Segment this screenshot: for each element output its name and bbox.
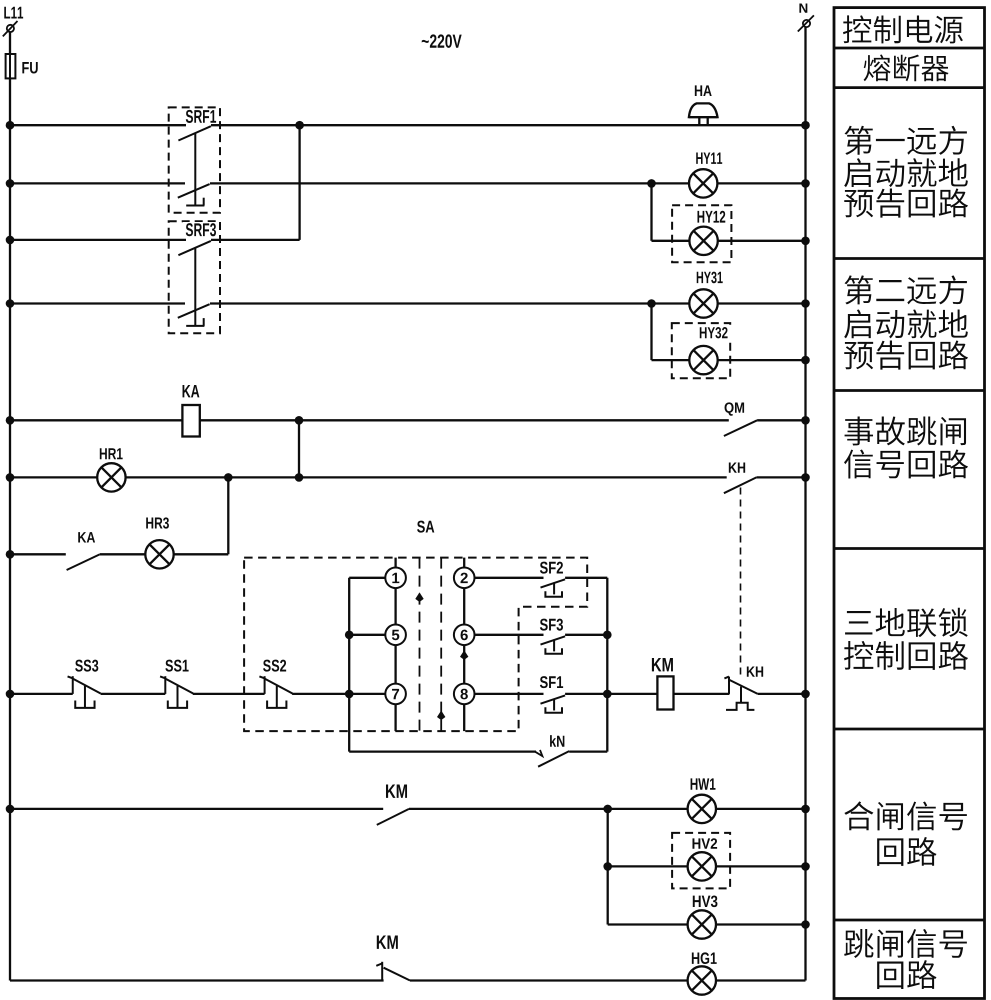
button SS3 (NC) bbox=[75, 660, 83, 672]
wire HV3 branch bbox=[608, 923, 688, 925]
lamp HY31 bbox=[697, 272, 703, 283]
wire row1 left bbox=[10, 124, 186, 126]
lamp HV3 bbox=[693, 896, 701, 907]
lamp HG1 bbox=[692, 953, 699, 964]
wire KN branch bbox=[349, 750, 536, 752]
wire row3 left bbox=[10, 239, 186, 241]
switch SA contact circles column 2-6-8 bbox=[454, 568, 475, 589]
fuse FU bbox=[6, 54, 16, 78]
lamp HR1 bbox=[100, 448, 107, 459]
contact KA (NO) bbox=[78, 532, 86, 542]
lamp HY11 bbox=[696, 153, 702, 164]
wire riser row6-row7 bbox=[298, 420, 300, 477]
switch SA internal links bbox=[394, 558, 396, 568]
coil KM bbox=[652, 658, 662, 671]
wire circle2 to SF2 bbox=[475, 577, 544, 579]
lamp HV2 in dashed box bbox=[672, 833, 730, 889]
node row7 junctions bbox=[6, 473, 15, 482]
label cell6 三地联锁控制回路 bbox=[845, 611, 872, 634]
node row6 junctions bbox=[6, 416, 15, 425]
node row4 junctions bbox=[6, 299, 15, 308]
wire row8 bbox=[10, 553, 66, 555]
switch SA left feeder bbox=[348, 578, 350, 752]
wire row4 right bbox=[210, 302, 689, 304]
label cell3 第一远方启动就地预告回路 bbox=[845, 126, 873, 155]
label ~220V bbox=[422, 40, 429, 43]
wire row2 right bbox=[210, 182, 689, 184]
node L11 terminal bbox=[4, 7, 10, 19]
lamp HY12 in dashed box bbox=[672, 205, 731, 262]
wire riser row3-row1 bbox=[298, 125, 300, 240]
wire HY32 branch bbox=[650, 304, 652, 361]
lamp HW1 bbox=[691, 778, 698, 789]
node row3 left bbox=[6, 236, 15, 245]
wire left bus bbox=[9, 32, 11, 981]
button SS1 (NC) bbox=[165, 660, 173, 672]
lamp HY32 in dashed box bbox=[672, 323, 730, 378]
node row8 left bbox=[6, 550, 15, 559]
label cell5 事故跳闸信号回路 bbox=[845, 416, 873, 445]
contact KM (NO) bbox=[386, 784, 396, 797]
switch SA contact circles column 1-5-7 bbox=[385, 568, 406, 589]
contact kN (NO with latch arrow) bbox=[550, 735, 556, 747]
wire row3 to riser bbox=[211, 239, 300, 241]
label cell7 合闸信号回路 bbox=[844, 801, 873, 830]
contact KM lower (NO with post) bbox=[377, 935, 387, 948]
wire row7 bbox=[10, 476, 97, 478]
contact KH lower (NC pushbutton style) bbox=[747, 666, 755, 676]
label cell4 第二远方启动就地预告回路 bbox=[845, 275, 873, 304]
wire row6 bbox=[10, 419, 182, 421]
contact QM bbox=[725, 402, 734, 415]
mech link KH dashed bbox=[740, 488, 742, 679]
wire row2 left bbox=[10, 182, 185, 184]
label cell2 熔断器 bbox=[864, 55, 891, 82]
wire row10 bbox=[10, 808, 383, 810]
node N terminal bbox=[799, 4, 807, 13]
contact SRF1 (remote start 1, two linked contacts in dashed box) bbox=[169, 107, 220, 212]
wire right bus bbox=[804, 27, 806, 981]
lamp HR3 bbox=[146, 517, 153, 528]
contact SRF3 (remote start 2, two linked contacts in dashed box) bbox=[169, 221, 220, 333]
wire row4 left bbox=[10, 302, 185, 304]
switch SA dashed outline bbox=[417, 521, 425, 533]
wire HV2 branch bbox=[607, 809, 609, 925]
button SS2 (NC) bbox=[263, 660, 271, 672]
contact KH (trip relay, NO) bbox=[729, 462, 737, 472]
wire riser row7-row8 bbox=[227, 477, 229, 554]
wire SF collector riser bbox=[565, 577, 607, 579]
table frame bbox=[834, 8, 985, 999]
wire HY12 branch bbox=[650, 183, 652, 240]
wire row9 bbox=[10, 693, 73, 695]
button SF3 (NO) bbox=[540, 619, 548, 631]
coil KA bbox=[183, 385, 191, 397]
node row9 junctions bbox=[6, 690, 15, 699]
node row10 junctions bbox=[6, 805, 15, 814]
label cell1 控制电源 bbox=[843, 15, 871, 43]
wire row13 bbox=[10, 979, 384, 981]
wire circle6 to SF3 bbox=[475, 634, 544, 636]
node row2 junctions bbox=[6, 179, 15, 188]
bell HA bbox=[695, 85, 702, 96]
node row1 junctions bbox=[6, 121, 15, 130]
label cell8 跳闸信号回路 bbox=[844, 929, 873, 958]
button SF2 (NO) bbox=[540, 562, 548, 574]
button SF1 (NO) bbox=[540, 676, 548, 688]
wire row1 right bbox=[211, 124, 806, 126]
switch SA cam lines bbox=[419, 558, 421, 732]
